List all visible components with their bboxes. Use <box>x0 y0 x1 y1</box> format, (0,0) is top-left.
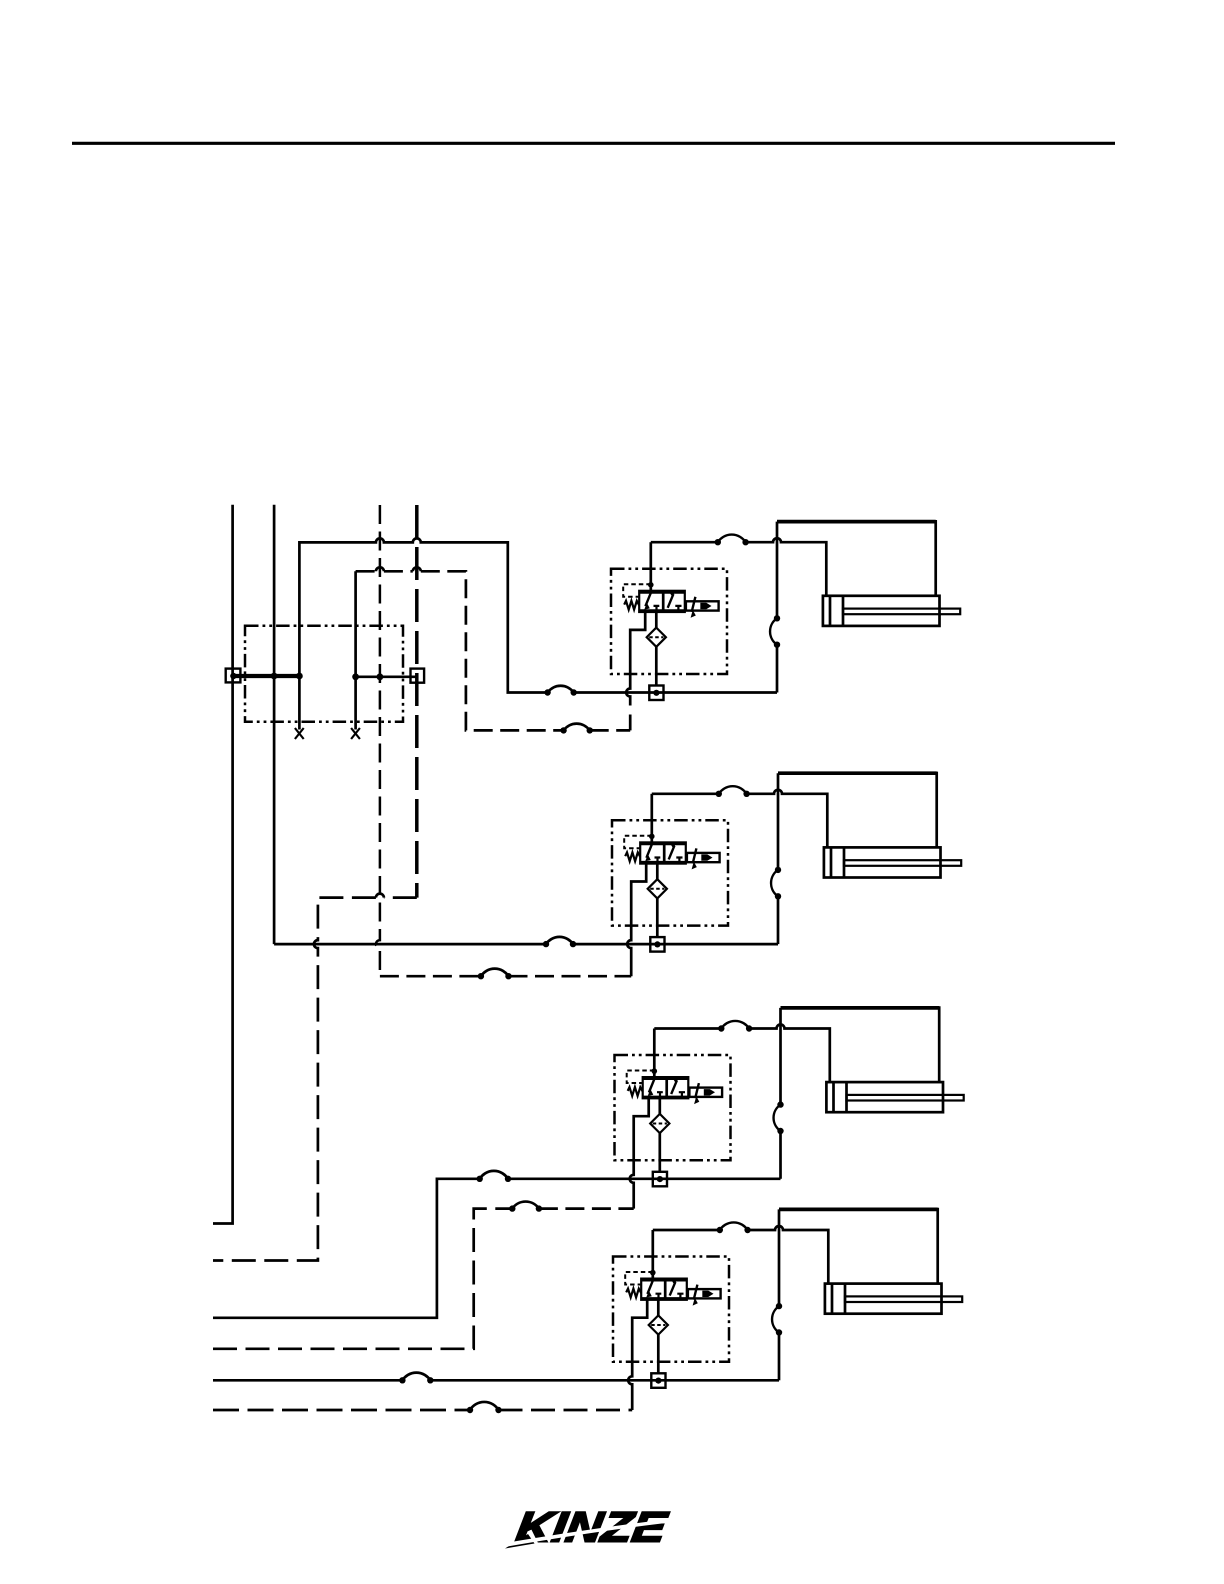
wire A1 return dashed <box>356 571 564 730</box>
valve assembly U2 with cylinder C2 <box>612 772 961 952</box>
hose union A4 return <box>467 1402 502 1413</box>
hose union A4 pressure <box>399 1373 433 1384</box>
wire A1 valve return drop with hop <box>626 674 630 730</box>
hose union A3 pressure <box>477 1171 512 1182</box>
wire A3 valve return drop with hop <box>630 1160 634 1208</box>
coupler CPL-R square <box>411 669 425 683</box>
wire A2 pressure run <box>274 943 546 946</box>
junction dot V2 tap <box>271 673 278 680</box>
wire A1 pressure run with hops <box>299 538 547 692</box>
page rule <box>72 142 1115 145</box>
wire A1 return tail dashed <box>590 729 631 732</box>
hose union A2 return <box>478 969 512 980</box>
hose union A3 return <box>509 1202 542 1212</box>
valve assembly U4 with cylinder C4 <box>613 1208 962 1388</box>
wire A1 pressure to drop <box>574 691 777 694</box>
wire A4 return tail dashed <box>499 1409 633 1412</box>
plug stub 1 <box>298 676 301 730</box>
wire A4 return dashed <box>213 1409 470 1412</box>
wire A1 return riser <box>354 571 357 677</box>
wire A4 valve return drop with hop <box>628 1362 632 1410</box>
wire A2 pressure to drop <box>573 943 778 946</box>
wire A3 return tail dashed <box>539 1207 634 1210</box>
crossover hops A1 return <box>376 567 421 571</box>
hose V1 SCV trunk <box>213 505 233 1224</box>
svg-text:KINZE: KINZE <box>513 1504 671 1552</box>
hose V2 SCV trunk <box>273 505 276 944</box>
wire A2 return dashed <box>380 975 481 978</box>
wire V4 cross-connect dashed <box>213 898 417 1261</box>
wire A4 pressure run <box>213 1379 402 1382</box>
selector manifold enclosure box <box>245 626 403 722</box>
junction dot A1 return tap <box>352 673 359 680</box>
manifold right bus <box>356 675 418 678</box>
KINZE logo <box>505 1504 675 1552</box>
hose union A1 pressure <box>544 686 577 696</box>
hose union A2 pressure <box>543 937 576 947</box>
valve assembly U3 with cylinder C3 <box>615 1006 964 1186</box>
wire A3 pressure to drop <box>508 1177 781 1180</box>
wire A3 pressure run <box>213 1179 480 1318</box>
hose V4 SCV trunk long-dash <box>415 505 419 898</box>
valve assembly U1 with cylinder C1 <box>611 520 960 700</box>
hose union A1 return <box>560 724 593 734</box>
junction dot CPL-L <box>230 673 236 679</box>
wire A4 pressure to drop <box>430 1379 779 1382</box>
plug stub 2 <box>354 677 357 730</box>
wire A2 return tail dashed <box>509 975 632 978</box>
junction dot A1 feed tap <box>296 673 303 680</box>
plug X1 <box>295 728 304 739</box>
manifold left bus <box>233 674 299 678</box>
crossover hop on cross-connect <box>376 894 384 898</box>
wire A3 return dashed <box>213 1209 512 1349</box>
coupler CPL-L square <box>226 669 241 683</box>
junction dot V3 tap <box>377 673 384 680</box>
wire A2 valve return drop with hop <box>627 926 631 977</box>
hose V3 SCV trunk dashed <box>376 505 380 976</box>
plug X2 <box>351 728 360 739</box>
